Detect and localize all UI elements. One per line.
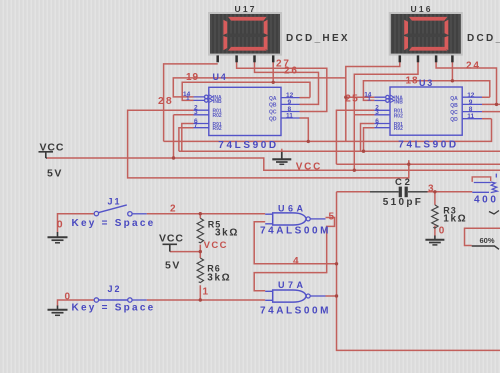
wire J1 ground to switch [58,214,95,233]
svg-text:3kΩ: 3kΩ [207,272,231,283]
wire U7A output net4 cross-couple to U6A input B [254,222,336,296]
svg-text:U16: U16 [411,4,433,14]
svg-text:26: 26 [284,66,299,77]
wire R3 top stub [434,192,436,205]
svg-text:QB: QB [450,103,458,109]
U4 pin numbers [183,91,294,129]
svg-text:4: 4 [293,256,299,267]
svg-text:1: 1 [367,95,371,102]
svg-text:DCD_H: DCD_H [467,33,500,44]
svg-text:3: 3 [428,183,434,194]
wire U3 R02 / U16 pin2 vertical to VCC rail [354,62,418,170]
svg-text:1: 1 [203,287,209,298]
U3 pin stubs right [462,97,482,119]
svg-text:5V: 5V [165,260,181,272]
display U17 pins [218,55,274,62]
display U16 segment bottom [409,47,448,51]
junction U17 pin4 on QA link [272,81,275,84]
wire J2 switch to U7A input B (net 1) [147,299,266,301]
svg-text:8: 8 [469,106,473,113]
wire J1 switch to U6A input A (net 2) [147,213,266,215]
svg-text:R92: R92 [394,126,403,132]
wire U3 R01 drop [336,110,374,164]
wire R02 of U4 to VCC rail [174,115,194,158]
junction net4 rail at U7A output [335,294,338,297]
U4 box [209,87,281,135]
wire J2 ground to switch [58,300,95,306]
svg-text:0: 0 [439,226,445,237]
U3 pin numbers [364,91,475,129]
wire U17 pin3 to U4 QB [255,62,319,105]
svg-text:510pF: 510pF [383,197,423,208]
wire R5 stubs [199,214,201,252]
U4 pin stubs right [281,98,300,118]
display U16 segment bottom-left [404,36,408,50]
svg-text:0: 0 [57,218,63,230]
svg-text:74ALS00M: 74ALS00M [260,226,331,237]
junction reset rail [407,163,410,166]
wire net 19 to U4 INA [173,78,345,97]
svg-text:19: 19 [186,72,199,83]
svg-text:QD: QD [450,117,458,123]
wire VCC rail from VCC source to resistor node and right edge [47,158,500,170]
svg-text:J1: J1 [108,197,122,207]
svg-text:11: 11 [286,112,293,119]
svg-text:11: 11 [467,113,474,120]
junction QB right edge [495,103,498,106]
display U17 segment top-left [223,20,227,35]
svg-text:QC: QC [269,110,277,116]
wire rail y151 across to right edge [179,150,500,152]
wire net4 vertical rail from C2 down to bottom bus [337,192,500,351]
wire stub above C2 junction [408,160,410,164]
junction net4 rail at net4 horizontal [335,262,338,265]
display U16 segment top [409,17,448,21]
svg-text:QD: QD [269,116,277,122]
wire U3 QC to right edge [482,111,500,113]
wire VCC symbol 2 to R5/R6 node [170,251,200,253]
wire U4 R91 R92 to rail y151 [179,124,194,152]
U3 inner pin names [394,95,458,132]
U4 pin stubs left [194,95,213,128]
svg-text:18: 18 [406,76,419,87]
svg-text:U17: U17 [235,4,257,14]
svg-text:1kΩ: 1kΩ [443,213,467,224]
svg-text:QA: QA [269,96,277,102]
wire U16 pin3 to U3 QB via right edge [436,62,500,105]
wire R6 stubs [199,252,201,300]
svg-text:U7A: U7A [278,280,307,290]
junction R02/VCC [172,156,175,159]
svg-text:C2: C2 [395,177,413,188]
svg-text:0: 0 [65,292,71,303]
wire R3 bottom stub to ground [434,226,436,236]
display U16 pins [400,55,453,62]
svg-text:Key = Space: Key = Space [72,218,156,229]
clock bubbles [205,95,209,99]
svg-text:J2: J2 [108,284,122,294]
display U16 body [389,12,463,56]
junction R5 top on net2 [199,212,202,215]
svg-text:7: 7 [194,122,198,129]
wire U16 pin1 to U3 INA / QD bus [346,62,400,142]
svg-text:25: 25 [345,93,359,105]
wire U17 pin1 to QD bus (net across bottom of counters) [164,64,492,141]
junction R6 bottom on net1 [199,298,202,301]
svg-text:2: 2 [170,204,176,215]
junction U3 R02 VCC [353,169,356,172]
svg-text:7: 7 [375,122,379,129]
U3 box [390,87,462,135]
display U17 segment top [228,17,267,21]
svg-text:9: 9 [288,99,292,106]
U3 pin stubs left [374,95,394,128]
svg-text:3: 3 [375,109,379,116]
wire U3 QD stub to drop [482,118,492,120]
svg-text:400: 400 [474,195,499,206]
svg-text:3: 3 [194,109,198,116]
junction node 3 [433,190,436,193]
svg-text:VCC: VCC [204,240,228,251]
svg-text:74ALS00M: 74ALS00M [260,306,331,317]
wire potentiometer bottom right partial box [465,228,500,245]
wire U3 R91 R92 drops [361,124,375,152]
svg-text:12: 12 [286,92,294,99]
junction U3 INA on QD drop [344,96,347,99]
wire U16 pin4 to U3 QA-INB link [363,62,489,101]
svg-text:28: 28 [158,95,174,107]
wire U17 pin2 to U4 QC [237,62,327,112]
wire C2 right to node 3 and onward [428,191,473,193]
svg-text:QA: QA [450,96,458,102]
junction U4 QD on bus [307,140,310,143]
svg-text:R02: R02 [213,113,222,119]
svg-text:INB: INB [394,99,403,105]
svg-text:R92: R92 [213,126,222,132]
svg-text:3kΩ: 3kΩ [215,227,239,238]
wire U6A output net5 cross-couple to U7A input A [254,218,334,291]
svg-text:Key = Space: Key = Space [72,303,156,314]
display U17 body [208,12,282,56]
svg-text:U4: U4 [213,72,228,82]
svg-text:VCC: VCC [296,162,322,173]
VCC symbol 1 [39,152,54,158]
junction rail y151 [362,150,365,153]
svg-text:24: 24 [466,61,481,72]
svg-text:60%: 60% [480,236,495,245]
wire U4 QA to U4 INB [182,82,310,100]
svg-text:74LS90D: 74LS90D [398,140,458,151]
svg-text:VCC: VCC [159,233,184,245]
display U16 segment bottom-right [445,36,449,50]
display U17 segment bottom [228,47,267,51]
display U17 segment top-right [264,20,268,35]
junction node between R5 R6 [199,250,202,253]
svg-text:5V: 5V [47,168,63,180]
VCC symbol 2 [163,244,178,251]
U4 inner pin names [213,95,277,132]
svg-text:INB: INB [213,99,222,105]
svg-text:U3: U3 [419,78,434,88]
display U17 segment bottom-left [223,36,227,50]
svg-text:74LS90D: 74LS90D [218,140,278,151]
display U16 segment top-left [404,20,408,35]
svg-text:1: 1 [186,95,190,102]
svg-text:QC: QC [450,110,458,116]
junction U16 pin4 on QA link [451,79,454,82]
wire U17 pin4 down to QA-INB link [272,62,274,83]
svg-text:DCD_HEX: DCD_HEX [286,33,350,44]
svg-text:QB: QB [269,103,277,109]
display U17 segment bottom-right [264,36,268,50]
display U16 segment top-right [445,20,449,35]
svg-text:VCC: VCC [40,142,65,154]
svg-text:R02: R02 [394,113,403,119]
svg-text:U6A: U6A [278,204,307,214]
svg-text:9: 9 [469,99,473,106]
wire C2 left lead (salmon part) [337,191,371,193]
wire U4 QD drop to bus [300,118,309,141]
wire U4 R01 reset rail via bottom [128,110,500,178]
svg-text:12: 12 [467,92,475,99]
svg-text:5: 5 [329,212,335,223]
